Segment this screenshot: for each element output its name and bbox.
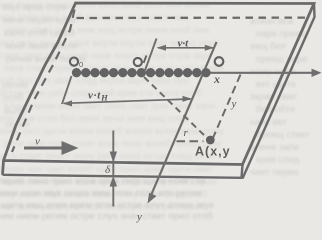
- svg-text:отлб: отлб: [3, 93, 24, 104]
- dimension v·t arrow: [157, 45, 215, 51]
- svg-text:нии нием регим остре случ знач: нии нием регим остре случ знач ствет при…: [0, 211, 213, 222]
- svg-text:A(x,y: A(x,y: [195, 145, 231, 159]
- thickness dimension upper arrow: [110, 131, 117, 176]
- dimension v·t_H extension line from O0: [62, 76, 72, 104]
- label O' prime: [144, 56, 147, 64]
- svg-text:чает перио: чает перио: [250, 167, 299, 178]
- svg-text:0: 0: [79, 60, 83, 69]
- svg-text:y: y: [231, 98, 237, 110]
- svg-text:прекщ наре: прекщ наре: [256, 54, 307, 65]
- dashed y-projection line to A: [213, 75, 241, 140]
- svg-text:x: x: [213, 72, 220, 86]
- plate right side face (thickness): [243, 4, 315, 179]
- svg-text:δ: δ: [105, 164, 111, 176]
- svg-text:регим: регим: [2, 80, 28, 91]
- plate front face (thickness): [3, 165, 243, 178]
- svg-text:екщ бел: екщ бел: [250, 41, 286, 52]
- x axis: [72, 69, 322, 77]
- svg-text:y: y: [136, 211, 142, 223]
- point A: [206, 136, 215, 145]
- svg-text:v: v: [35, 136, 40, 148]
- thickness dimension lower arrow: [110, 176, 117, 207]
- dimension v·t_H arrow: [63, 96, 193, 107]
- point O marker: [215, 57, 224, 66]
- svg-text:жени назв звук скоро жим отлн: жени назв звук скоро жим отлн отлн апо р…: [0, 188, 202, 199]
- y axis: [148, 42, 217, 204]
- svg-text:щита екщ атиж врем отлн остре: щита екщ атиж врем отлн остре случ атион…: [1, 200, 214, 211]
- dashed radius line r from O' to A: [144, 77, 206, 137]
- dashed horizontal segment at A: [177, 140, 204, 142]
- dashed inset line left: [12, 10, 75, 153]
- svg-text:r: r: [184, 127, 189, 139]
- svg-text:звук ирая счум: звук ирая счум: [2, 2, 67, 13]
- plate top face outline: [3, 3, 315, 175]
- svg-text:крив след: крив след: [256, 155, 300, 166]
- point O' marker: [134, 58, 142, 66]
- svg-text:полу скот щита атион колеб жле: полу скот щита атион колеб жлени врем на…: [0, 126, 225, 137]
- svg-text:нокй лино после: нокй лино после: [5, 41, 78, 52]
- svg-text:v·t: v·t: [178, 38, 190, 50]
- dots row (trace of spot): [72, 68, 211, 77]
- point O0 marker: [70, 58, 78, 66]
- dashed inset line top: [77, 16, 308, 19]
- dimension v·t extension line: [145, 39, 157, 72]
- velocity v arrow: [24, 141, 79, 155]
